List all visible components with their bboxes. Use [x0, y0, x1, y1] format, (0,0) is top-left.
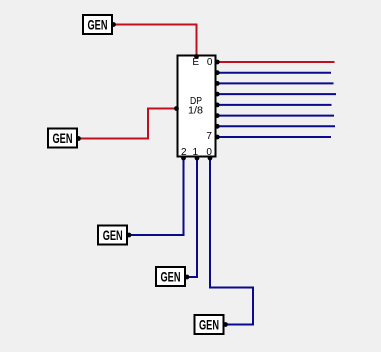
svg-text:2: 2	[181, 147, 187, 158]
svg-text:GEN: GEN	[88, 17, 108, 33]
svg-text:0: 0	[206, 147, 212, 158]
svg-text:7: 7	[206, 131, 212, 142]
svg-text:1: 1	[193, 147, 199, 158]
svg-text:GEN: GEN	[199, 317, 219, 333]
svg-text:E: E	[192, 57, 199, 68]
svg-text:1/8: 1/8	[188, 106, 203, 117]
svg-text:0: 0	[207, 57, 213, 68]
svg-text:GEN: GEN	[103, 227, 123, 243]
svg-text:GEN: GEN	[161, 269, 181, 285]
svg-text:GEN: GEN	[53, 130, 73, 146]
